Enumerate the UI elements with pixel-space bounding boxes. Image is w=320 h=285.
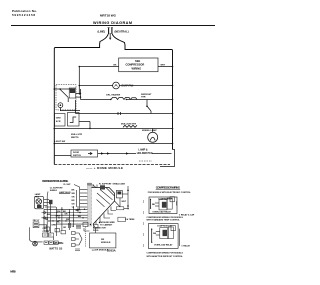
svg-text:WH: WH: [66, 219, 70, 221]
svg-text:MULL HTR: MULL HTR: [71, 134, 83, 136]
svg-text:MRT18 WG: MRT18 WG: [100, 13, 117, 17]
svg-text:SCR: SCR: [56, 121, 61, 123]
svg-text:—— + DOME MODULE: —— + DOME MODULE: [86, 166, 123, 170]
svg-text:OVERLOAD RELAY: OVERLOAD RELAY: [152, 210, 171, 213]
svg-text:1/4 TERM: 1/4 TERM: [125, 218, 134, 221]
svg-text:WATTS 1B: WATTS 1B: [49, 248, 62, 251]
svg-text:WHT: WHT: [161, 65, 166, 67]
svg-text:DEFROST: DEFROST: [141, 94, 152, 96]
svg-text:COMPRESSOR: COMPRESSOR: [157, 226, 172, 228]
svg-text:COMPRESSOR WIRING: COMPRESSOR WIRING: [156, 186, 180, 190]
svg-text:LT SW: LT SW: [43, 231, 49, 233]
svg-text:◄ RELAY: ◄ RELAY: [181, 244, 191, 247]
svg-text:GRD WIRE: GRD WIRE: [53, 243, 64, 245]
svg-text:DR: DR: [101, 239, 105, 241]
svg-text:WIRING: WIRING: [132, 66, 142, 70]
svg-text:SHIELD ASM: SHIELD ASM: [113, 182, 126, 185]
svg-text:OVERLOAD RELAY: OVERLOAD RELAY: [154, 244, 173, 247]
svg-text:WATTS: WATTS: [71, 136, 79, 139]
svg-text:HOLDER PKG: HOLDER PKG: [137, 152, 153, 155]
svg-text:DKL HEATER: DKL HEATER: [106, 94, 120, 97]
svg-text:GRN: GRN: [51, 225, 56, 227]
svg-text:◄ RELAY & CAP: ◄ RELAY & CAP: [178, 213, 195, 216]
svg-text:LIGHT SW: LIGHT SW: [55, 141, 67, 143]
svg-text:REFRIGERATOR LIGHTING: REFRIGERATOR LIGHTING: [42, 179, 68, 183]
svg-text:FOR MODELS WITH ELECTRONIC CON: FOR MODELS WITH ELECTRONIC CONTROL: [148, 192, 192, 194]
svg-text:COMPRESSOR WIRING FOR MODELS: COMPRESSOR WIRING FOR MODELS: [147, 217, 184, 219]
svg-text:5995424458: 5995424458: [12, 13, 35, 17]
svg-text:EVAP FAN: EVAP FAN: [122, 84, 134, 87]
svg-text:TO CABINET: TO CABINET: [100, 224, 113, 227]
svg-text:COMPRESSOR: COMPRESSOR: [126, 63, 145, 67]
svg-text:MULLION HTR: MULLION HTR: [121, 123, 136, 125]
svg-text:(NEUTRAL): (NEUTRAL): [115, 30, 129, 34]
svg-text:WH: WH: [78, 216, 82, 218]
svg-text:WH: WH: [57, 211, 61, 213]
svg-text:COMPRESSOR WIRING FOR MODELS: COMPRESSOR WIRING FOR MODELS: [147, 252, 184, 254]
svg-text:BRN: BRN: [56, 215, 61, 217]
svg-text:LAMP SHLD: LAMP SHLD: [59, 191, 71, 194]
svg-text:MR55: MR55: [10, 270, 16, 274]
svg-text:MODULE: MODULE: [101, 242, 111, 244]
svg-text:WIRING DIAGRAM: WIRING DIAGRAM: [93, 21, 132, 25]
svg-text:MODEL LAMP: MODEL LAMP: [142, 129, 157, 132]
svg-text:WHT: WHT: [122, 201, 127, 203]
svg-text:WH: WH: [72, 193, 76, 195]
svg-text:WITH STANDARD TEMP CONTROL: WITH STANDARD TEMP CONTROL: [147, 219, 181, 222]
svg-text:D553A: D553A: [107, 249, 116, 253]
svg-text:FL SUPPORT: FL SUPPORT: [99, 183, 112, 185]
svg-text:PLUG: PLUG: [93, 230, 99, 232]
svg-text:WITH ADAPTIVE DEFROST CONTROL: WITH ADAPTIVE DEFROST CONTROL: [147, 255, 184, 258]
svg-text:CL SUP: CL SUP: [63, 184, 71, 186]
svg-text:(LINE): (LINE): [98, 30, 106, 34]
svg-text:SHIELD: SHIELD: [50, 190, 58, 192]
svg-text:PKG: PKG: [35, 196, 40, 198]
svg-text:GRD: GRD: [56, 118, 61, 120]
svg-text:SWITCH: SWITCH: [73, 155, 81, 157]
svg-text:SEE: SEE: [135, 59, 140, 63]
svg-text:HTR: HTR: [141, 97, 146, 99]
